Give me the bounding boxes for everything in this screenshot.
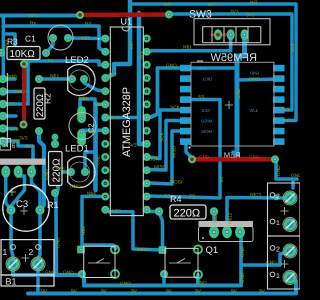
svg-text:2: 2 <box>276 194 280 201</box>
wire RX <box>2 16 6 80</box>
wire SW3 N$1 to U1 <box>147 35 231 52</box>
svg-text:GND: GND <box>14 89 25 95</box>
svg-text:N$3: N$3 <box>112 208 121 214</box>
svg-text:GND: GND <box>227 154 238 159</box>
svg-text:GND: GND <box>240 272 246 283</box>
LED LED1 outline <box>68 156 95 187</box>
wire connector stub pin4 <box>3 114 16 118</box>
svg-text:GND: GND <box>250 71 259 76</box>
wire C1 to U1 reset <box>68 36 105 40</box>
switch SW2 pads <box>159 246 167 254</box>
wire red GND bottom-right <box>192 157 275 162</box>
svg-text:GND: GND <box>56 237 62 248</box>
svg-text:N$12: N$12 <box>227 212 233 224</box>
svg-text:SCK: SCK <box>201 108 210 113</box>
svg-text:N$4: N$4 <box>87 191 96 197</box>
screw terminal X2 pads <box>283 244 297 258</box>
via red GND left end <box>188 155 196 163</box>
svg-text:3V3: 3V3 <box>117 12 126 17</box>
via red vertical bottom end <box>20 121 28 129</box>
svg-text:GND: GND <box>120 281 131 287</box>
resistor R1 pads <box>51 140 59 148</box>
wire SCK <box>145 110 183 159</box>
svg-text:R4: R4 <box>170 194 182 204</box>
wire GND module to U1 pin down x157 <box>147 68 158 118</box>
wire GND bus lower <box>84 284 241 288</box>
wire module pad8 to red via <box>186 143 192 158</box>
switch SW3 outline <box>194 19 270 45</box>
wire 3V3 right bus <box>170 14 292 110</box>
svg-text:3V3: 3V3 <box>144 12 153 17</box>
wire B1 pad2 to 9V bus <box>36 264 40 294</box>
svg-text:SW3: SW3 <box>189 9 212 21</box>
via N$23 <box>273 195 279 201</box>
wire LED2 to U1 <box>84 79 105 91</box>
svg-text:N$10: N$10 <box>137 247 149 253</box>
svg-text:MISO: MISO <box>154 165 167 171</box>
svg-text:GND: GND <box>96 154 102 165</box>
svg-text:3.3V: 3.3V <box>249 108 258 113</box>
wire C3 left to B1 pad1 <box>11 210 13 264</box>
screw terminal X2 outline <box>268 236 301 289</box>
svg-text:N$7: N$7 <box>81 36 90 42</box>
module crosshair <box>225 101 233 109</box>
capacitor C1 outline <box>48 25 73 50</box>
connector J1 outline <box>6 73 8 147</box>
wire R4 left down to SW2 <box>160 215 163 250</box>
wire U1 to SW2 <box>105 210 162 250</box>
svg-text:9V: 9V <box>231 289 238 295</box>
svg-text:SCK: SCK <box>160 131 166 142</box>
svg-text:GND: GND <box>249 154 260 159</box>
svg-text:3V3: 3V3 <box>28 13 37 19</box>
svg-text:9V: 9V <box>101 289 108 295</box>
svg-text:GND: GND <box>45 270 56 276</box>
svg-text:LED2: LED2 <box>65 55 89 66</box>
svg-text:B1: B1 <box>6 277 17 287</box>
svg-text:U1: U1 <box>121 17 133 27</box>
svg-text:GND: GND <box>249 77 260 83</box>
small box with pad <box>0 139 11 151</box>
svg-text:N$5: N$5 <box>56 167 65 173</box>
wire red SW3 stub <box>212 33 226 36</box>
svg-text:INT: INT <box>129 41 135 49</box>
svg-text:9V: 9V <box>166 289 173 295</box>
svg-text:R2: R2 <box>43 93 53 104</box>
svg-text:1: 1 <box>276 220 280 227</box>
LED LED1 pads <box>67 168 75 176</box>
svg-text:Q1: Q1 <box>206 245 219 256</box>
svg-text:9V: 9V <box>195 289 202 295</box>
svg-text:TX: TX <box>25 110 30 116</box>
switch SW1 outline <box>84 246 115 277</box>
wire INT vertical into U1 <box>105 0 130 78</box>
wire terminal GND drop <box>291 179 295 188</box>
svg-text:3V3: 3V3 <box>19 136 28 142</box>
svg-text:DIO1: DIO1 <box>202 77 212 82</box>
module U2 RFM95W smd pads <box>180 65 285 145</box>
wire MISO <box>145 121 183 171</box>
wire R2 bottom to GND rail <box>39 131 44 210</box>
wire C2 bottom GND <box>82 129 105 133</box>
svg-text:MISO: MISO <box>201 119 212 124</box>
svg-text:220Ω: 220Ω <box>174 208 201 220</box>
transistor Q1 pads <box>209 226 219 238</box>
svg-text:3V3: 3V3 <box>290 43 296 52</box>
wire module GND to right pad2 <box>237 79 279 80</box>
switch SW1 pads <box>77 246 85 254</box>
resistor R3 body <box>7 47 40 60</box>
svg-text:GND: GND <box>236 88 242 99</box>
svg-text:C3: C3 <box>16 199 28 210</box>
wire 9V bus <box>28 278 296 294</box>
via red 3V3 left end <box>76 11 84 19</box>
svg-text:GND: GND <box>63 270 74 276</box>
svg-text:TX: TX <box>9 102 16 108</box>
svg-text:N$7: N$7 <box>50 74 59 80</box>
svg-text:9V: 9V <box>131 289 138 295</box>
resistor R3 pads <box>0 49 5 57</box>
wire N$4 U1 to SW1 <box>82 196 116 248</box>
wire GND R1 to bus <box>54 195 58 275</box>
screw terminal X1 pads <box>283 191 297 205</box>
wire Q1 GND to terminal <box>241 252 288 265</box>
connector J1 pads <box>0 75 7 84</box>
wire connector stub pin5 <box>3 127 16 131</box>
wire MOSI <box>145 131 183 184</box>
svg-text:MOSI: MOSI <box>201 129 212 134</box>
svg-text:N$4: N$4 <box>81 226 87 235</box>
wire red 3V3 top <box>80 12 169 17</box>
wire connector stub N$9 <box>3 77 15 81</box>
svg-text:SS: SS <box>219 177 225 183</box>
wire 3V3 connector to regulator <box>3 141 33 172</box>
svg-text:SCK: SCK <box>170 105 181 111</box>
svg-text:INT: INT <box>208 2 216 8</box>
svg-text:Rx: Rx <box>30 21 36 27</box>
wire connector stub GND <box>3 90 28 94</box>
transistor Q1 body <box>199 221 254 227</box>
capacitor C3 pads <box>6 205 15 214</box>
wire GND bus upper <box>13 264 82 275</box>
regulator U3 tab bar <box>0 159 46 165</box>
wire Rx <box>3 26 105 52</box>
wire regulator pad3 to C3 <box>32 172 41 210</box>
svg-text:2: 2 <box>276 247 280 254</box>
capacitor C1 pads <box>49 34 57 42</box>
svg-text:3V3: 3V3 <box>230 9 239 15</box>
capacitor C2 pads <box>77 106 86 123</box>
wire R3 to C1 <box>46 38 53 53</box>
resistor R4 pads <box>155 207 163 215</box>
op-amp U1 body outline <box>110 27 143 216</box>
via red GND right end <box>271 155 279 163</box>
module U2 RFM95W outline <box>191 62 274 146</box>
svg-text:3V3: 3V3 <box>111 115 120 121</box>
svg-text:GND: GND <box>44 169 50 180</box>
svg-text:GND: GND <box>199 154 210 159</box>
svg-text:GND: GND <box>276 165 282 176</box>
wire 3V3 rail through U1 <box>139 13 147 144</box>
svg-text:9V: 9V <box>41 289 48 295</box>
svg-text:N$2: N$2 <box>213 214 219 223</box>
svg-text:MOSI: MOSI <box>170 179 182 185</box>
svg-text:N$1: N$1 <box>183 44 192 50</box>
resistor R4 body <box>170 205 206 219</box>
wire R4 to Q1 base <box>212 212 216 233</box>
svg-text:INT: INT <box>250 0 258 6</box>
svg-text:N$8: N$8 <box>94 102 103 108</box>
resistor R1 body <box>49 152 63 186</box>
wire LED1 to R1 <box>55 172 71 193</box>
svg-text:GND: GND <box>266 260 277 266</box>
svg-text:GND: GND <box>196 281 207 287</box>
svg-text:LED1: LED1 <box>65 144 89 155</box>
battery B1 outline <box>1 240 54 275</box>
svg-text:N$9: N$9 <box>8 74 17 80</box>
svg-text:GND: GND <box>70 184 81 190</box>
svg-text:3V3: 3V3 <box>246 12 255 18</box>
wire TX <box>3 61 105 104</box>
svg-text:INT: INT <box>109 73 117 79</box>
resistor R2 pads <box>35 75 43 83</box>
pad in small box <box>1 141 7 147</box>
wire regulator pad2 to C3 <box>11 172 25 206</box>
wire R1 top via <box>53 137 57 144</box>
svg-text:3V3: 3V3 <box>281 107 290 113</box>
svg-text:9V: 9V <box>71 289 78 295</box>
resistor R2 body <box>34 88 45 119</box>
svg-text:INT: INT <box>164 2 172 8</box>
svg-text:RFM95W: RFM95W <box>210 52 257 64</box>
via red vertical top end <box>20 60 28 68</box>
svg-text:1: 1 <box>3 247 8 257</box>
LED LED2 pads <box>68 75 76 83</box>
wire 3V3 to U1 pin7 <box>105 116 139 120</box>
wire SW3 pad3 GND thick <box>237 35 245 159</box>
svg-text:2: 2 <box>29 247 34 257</box>
wire C2 top to U1 <box>80 99 105 107</box>
svg-text:GND: GND <box>166 63 177 69</box>
switch SW3 pads <box>214 29 222 40</box>
svg-text:3V3: 3V3 <box>128 143 137 149</box>
via red 3V3 right end <box>165 11 173 19</box>
wire LED1 cathode to GND rail <box>85 152 96 172</box>
svg-text:INT: INT <box>283 118 291 124</box>
wire module pad1 to center GND <box>158 66 235 70</box>
regulator U3 pads <box>1 166 10 178</box>
op-amp U1 pads (ATMEGA328P DIP-28) <box>101 35 109 43</box>
battery B1 pads <box>6 257 20 271</box>
svg-text:SCK: SCK <box>149 156 160 162</box>
screw terminal X1 outline <box>268 183 301 236</box>
svg-text:TX: TX <box>47 59 54 65</box>
LED LED2 outline <box>68 65 95 96</box>
svg-text:N$23: N$23 <box>250 193 262 199</box>
wire R4 to U1 <box>147 210 159 212</box>
wire 3V3 top-left <box>0 14 80 18</box>
wire Q1 collector to terminal N$23 <box>227 198 290 233</box>
svg-text:3V3: 3V3 <box>139 51 145 60</box>
svg-text:SS: SS <box>198 94 204 100</box>
svg-text:3V3: 3V3 <box>10 140 19 146</box>
svg-text:SS: SS <box>164 193 170 199</box>
wire GND rail LED area <box>93 103 98 190</box>
svg-text:3V3: 3V3 <box>10 127 19 133</box>
switch SW2 outline <box>165 248 198 277</box>
via near R1 <box>52 134 59 141</box>
svg-text:GND: GND <box>240 246 246 257</box>
svg-text:N$4: N$4 <box>79 96 88 102</box>
svg-text:GND: GND <box>291 173 300 179</box>
wire C3 right to B1 pad2 <box>38 210 40 264</box>
capacitor C3 outline <box>3 185 49 231</box>
wire INT top bus <box>130 4 296 121</box>
wire R2 to LED2 <box>39 77 72 81</box>
svg-text:3V3: 3V3 <box>25 144 34 150</box>
wire red vertical left <box>22 64 26 123</box>
wire SW2 bottom stubs <box>162 274 166 286</box>
svg-text:1: 1 <box>276 273 280 280</box>
svg-text:GND: GND <box>86 130 97 136</box>
svg-text:9V: 9V <box>259 289 266 295</box>
wire 3V3 branch near R3 <box>3 34 15 51</box>
wire Q1 emitter GND <box>239 232 243 286</box>
svg-text:C1: C1 <box>25 34 36 44</box>
svg-text:RX: RX <box>85 21 92 27</box>
wire SS <box>145 100 220 199</box>
svg-text:MISO: MISO <box>172 145 178 158</box>
svg-text:SS: SS <box>189 193 195 199</box>
svg-text:3V3: 3V3 <box>4 39 10 48</box>
wire regulator pad1 to C3 <box>6 172 11 210</box>
module mirrored pad labels <box>198 66 259 134</box>
svg-text:10KΩ: 10KΩ <box>10 49 36 60</box>
svg-text:GND: GND <box>198 66 207 71</box>
capacitor C2 outline <box>69 113 96 140</box>
wire GND from red via to terminals <box>276 159 297 179</box>
